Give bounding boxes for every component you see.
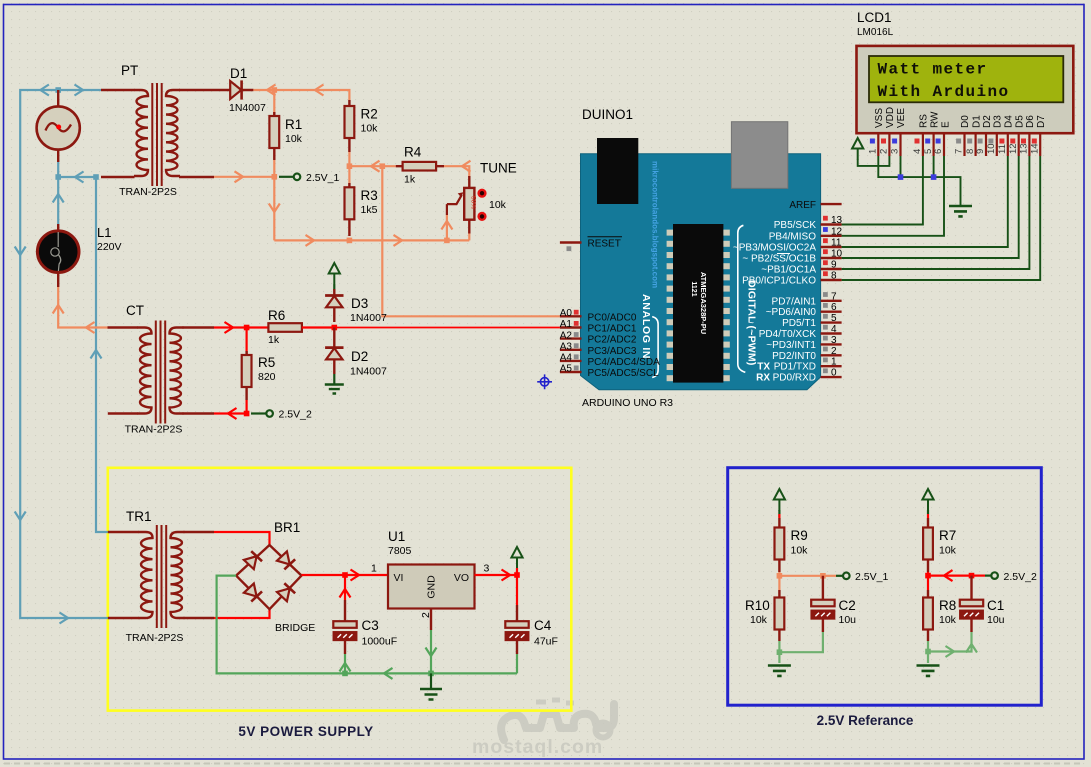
wire arrow green up C3 bbox=[340, 663, 351, 672]
svg-text:DUINO1: DUINO1 bbox=[582, 107, 633, 122]
wire maroon TR1 secondary leads bbox=[184, 532, 215, 618]
wire red A1 to arduino bbox=[334, 327, 560, 329]
junction R7 node bbox=[925, 573, 931, 579]
reset pin stub bbox=[560, 241, 582, 243]
wire green C4 to rail bbox=[516, 654, 518, 673]
wire orange R4 to TUNE bbox=[444, 166, 469, 177]
svg-text:Watt meter: Watt meter bbox=[878, 61, 988, 79]
arduino usb connector bbox=[731, 122, 787, 189]
svg-text:14: 14 bbox=[1029, 143, 1040, 154]
svg-text:10u: 10u bbox=[839, 614, 857, 626]
svg-text:D7: D7 bbox=[1036, 115, 1047, 128]
wire green D6 to pin9 bbox=[842, 156, 1030, 269]
svg-text:C4: C4 bbox=[534, 618, 552, 633]
svg-text:~ PB2/SS/OC1B: ~ PB2/SS/OC1B bbox=[742, 254, 816, 265]
power arrow LCD VDD bbox=[852, 138, 863, 160]
square p3 blue bbox=[892, 139, 897, 144]
junction bottom row R3 bbox=[347, 238, 353, 244]
wire arrow orange at R2 bbox=[315, 85, 324, 96]
wire blue mid rail bbox=[58, 160, 108, 532]
wire arrow green down gnd bbox=[426, 648, 437, 657]
svg-text:A1: A1 bbox=[560, 319, 573, 330]
svg-text:4: 4 bbox=[831, 324, 837, 335]
svg-text:D1: D1 bbox=[230, 66, 247, 81]
svg-text:PT: PT bbox=[121, 63, 138, 78]
reset gray square bbox=[567, 246, 572, 251]
junction C3 top bbox=[342, 572, 348, 578]
svg-text:0: 0 bbox=[831, 368, 837, 379]
svg-text:13: 13 bbox=[1019, 143, 1030, 154]
capacitor C1 bbox=[960, 576, 983, 632]
svg-text:10k: 10k bbox=[939, 614, 957, 626]
resistor R10 bbox=[775, 590, 785, 641]
red tick R9 bbox=[778, 514, 780, 518]
wire red R7 node bbox=[928, 572, 972, 590]
svg-text:7: 7 bbox=[831, 291, 837, 302]
red tick R7 bbox=[927, 514, 929, 518]
junction R2 bottom bbox=[347, 163, 353, 169]
svg-text:BR1: BR1 bbox=[274, 520, 300, 535]
capacitor C4 bbox=[505, 605, 528, 654]
junction R6-R5 bbox=[244, 325, 250, 331]
svg-text:VO: VO bbox=[454, 572, 469, 584]
svg-text:TX: TX bbox=[757, 362, 770, 373]
square p1 blue bbox=[870, 139, 875, 144]
wire green U1 gnd to rail bbox=[345, 630, 517, 673]
chip U ATMEGA328P-PU bbox=[673, 224, 723, 383]
wire orange R2 bottom to R4 row bbox=[349, 152, 395, 166]
square 3 gray bbox=[823, 336, 828, 341]
svg-text:R10: R10 bbox=[745, 598, 770, 613]
transformer TR1 bbox=[139, 525, 185, 628]
svg-text:47uF: 47uF bbox=[534, 636, 558, 648]
svg-text:TRAN-2P2S: TRAN-2P2S bbox=[126, 632, 184, 644]
junction green C3 bbox=[342, 671, 348, 677]
svg-text:D2: D2 bbox=[982, 115, 993, 128]
svg-text:9: 9 bbox=[831, 260, 837, 271]
svg-text:mikrocontrolandos.blogspot.com: mikrocontrolandos.blogspot.com bbox=[651, 161, 660, 288]
svg-text:5: 5 bbox=[831, 313, 837, 324]
wire green D2 to ground bbox=[333, 374, 335, 384]
junction top at AC source bbox=[55, 87, 61, 93]
svg-text:1: 1 bbox=[371, 563, 377, 575]
labels PB5-PB0 bbox=[733, 220, 816, 287]
bridge diode top-left bbox=[243, 551, 262, 569]
svg-text:1121: 1121 bbox=[690, 281, 697, 296]
svg-text:3: 3 bbox=[890, 149, 901, 154]
wire arrow blue down rail 2 bbox=[15, 512, 26, 521]
svg-text:R8: R8 bbox=[939, 598, 956, 613]
wire arrow blue top-left bbox=[40, 85, 49, 96]
junction C1 top bbox=[969, 573, 975, 579]
junction D3-D2 on A1 wire bbox=[332, 325, 338, 331]
svg-text:~PB3/MOSI/OC2A: ~PB3/MOSI/OC2A bbox=[733, 243, 816, 254]
bottom edge tick strip bbox=[4, 763, 1084, 765]
junction RW blue bbox=[931, 174, 937, 180]
svg-text:4: 4 bbox=[912, 149, 923, 154]
A5 square gray bbox=[574, 366, 579, 371]
transformer PT bbox=[134, 83, 180, 186]
power arrow ref left bbox=[774, 489, 785, 511]
diode D1 bbox=[222, 80, 253, 99]
wire orange lamp to CT bbox=[58, 287, 107, 328]
wire orange to node circle bbox=[823, 575, 836, 577]
transformer CT bbox=[138, 321, 184, 424]
svg-text:PD5/T1: PD5/T1 bbox=[782, 318, 816, 329]
svg-text:~PD3/INT1: ~PD3/INT1 bbox=[766, 340, 816, 351]
node 2.5V_1 ref circle bbox=[843, 573, 850, 580]
junction green gnd bbox=[428, 671, 434, 677]
wire arrow blue up mid rail bbox=[91, 350, 102, 359]
node 2.5V_2 ref wire bbox=[985, 574, 991, 576]
svg-text:10k: 10k bbox=[489, 199, 507, 211]
wire orange R1 top lead bbox=[273, 90, 275, 116]
A4 square gray bbox=[574, 354, 579, 359]
wire green D5 to pin10 bbox=[842, 156, 1019, 258]
digital pin stubs 7-0 bbox=[821, 301, 842, 377]
bridge diode bottom-right bbox=[277, 583, 296, 601]
svg-text:C2: C2 bbox=[839, 598, 856, 613]
svg-text:R5: R5 bbox=[258, 355, 275, 370]
node 2.5V_2 wire bbox=[251, 412, 266, 414]
A3 square gray bbox=[574, 343, 579, 348]
square 13 red bbox=[823, 216, 828, 221]
wire green C2 to R10 bbox=[779, 632, 823, 663]
svg-text:D6: D6 bbox=[1025, 115, 1036, 128]
svg-text:5: 5 bbox=[923, 149, 934, 154]
svg-text:TUNE: TUNE bbox=[480, 161, 517, 176]
wire arrow red into node bbox=[944, 570, 953, 581]
junction D1-R1 bbox=[272, 87, 278, 93]
pot TUNE terminal dot top bbox=[479, 190, 486, 197]
square 4 gray bbox=[823, 325, 828, 330]
svg-text:2.5V_2: 2.5V_2 bbox=[279, 409, 312, 421]
junction green R8 bbox=[925, 649, 931, 655]
square p12 red bbox=[1010, 139, 1015, 144]
svg-text:50%: 50% bbox=[470, 196, 477, 209]
resistor R4 bbox=[396, 162, 444, 171]
svg-text:RX: RX bbox=[756, 373, 770, 384]
wire arrow red VO bbox=[502, 570, 511, 581]
square p4 red bbox=[915, 139, 920, 144]
wire red R5 bottom to 2.5V_2 row bbox=[214, 400, 247, 414]
svg-text:mostaql.com: mostaql.com bbox=[472, 736, 603, 758]
svg-text:D4: D4 bbox=[1004, 115, 1015, 128]
svg-text:1N4007: 1N4007 bbox=[350, 366, 387, 378]
junction bottom row wiper bbox=[444, 238, 450, 244]
svg-text:VDD: VDD bbox=[885, 107, 896, 128]
ground 5V supply bbox=[420, 673, 442, 699]
wire arrow orange left to lamp col bbox=[86, 322, 95, 333]
potentiometer TUNE body bbox=[464, 176, 476, 234]
diode D2 bbox=[325, 348, 343, 374]
junction mid rail bbox=[93, 174, 99, 180]
wire arrow green rail left bbox=[384, 668, 393, 679]
regulator U1 7805 bbox=[388, 565, 475, 609]
svg-text:13: 13 bbox=[831, 215, 843, 226]
node 2.5V_2 ref circle bbox=[991, 572, 998, 579]
svg-text:7: 7 bbox=[954, 149, 965, 154]
svg-text:A4: A4 bbox=[560, 353, 573, 364]
svg-text:LM016L: LM016L bbox=[857, 27, 894, 38]
square p11 red bbox=[999, 139, 1004, 144]
svg-text:With Arduino: With Arduino bbox=[878, 83, 1010, 101]
square 5 gray bbox=[823, 314, 828, 319]
resistor R9 bbox=[775, 518, 785, 572]
wire arrow orange into R2 node bbox=[371, 161, 380, 172]
wire red TR1 bottom to bridge bbox=[214, 609, 270, 618]
5V power supply yellow box bbox=[108, 468, 572, 711]
ground LCD bbox=[949, 206, 972, 216]
svg-text:U1: U1 bbox=[388, 529, 405, 544]
junction C4 top bbox=[514, 572, 520, 578]
wire maroon PT secondary top to D1 bbox=[179, 89, 222, 91]
square p13 red bbox=[1021, 139, 1026, 144]
svg-text:12: 12 bbox=[831, 226, 843, 237]
svg-text:11: 11 bbox=[831, 238, 842, 249]
wire red power stem bbox=[516, 568, 518, 605]
pot TUNE wiper arrow bbox=[447, 192, 463, 215]
wire R9 top lead bbox=[778, 510, 780, 518]
bridge diode top-right bbox=[277, 551, 296, 569]
wire arrow blue down rail 1 bbox=[15, 247, 26, 256]
resistor R2 bbox=[345, 100, 355, 152]
wire orange R3 branch bbox=[348, 166, 350, 187]
junction AC bottom bbox=[55, 174, 61, 180]
node 2.5V_1 circle bbox=[294, 174, 301, 181]
svg-text:CT: CT bbox=[126, 303, 144, 318]
svg-text:PB0/ICP1/CLKO: PB0/ICP1/CLKO bbox=[742, 276, 816, 287]
junction 2.5V_1 tap bbox=[272, 174, 278, 180]
wire arrow orange into R4 bbox=[462, 161, 471, 172]
LCD1 screen bbox=[869, 56, 1063, 102]
wire maroon D2 top lead bbox=[333, 328, 335, 348]
wire R7 top lead bbox=[927, 510, 929, 514]
node 2.5V_1 ref wire bbox=[836, 575, 843, 577]
capacitor C3 bbox=[333, 600, 356, 654]
bridge BR1 diamond bbox=[236, 545, 301, 609]
svg-text:D0: D0 bbox=[960, 115, 971, 128]
power arrow above D3 bbox=[329, 263, 340, 285]
A1 square red bbox=[574, 321, 579, 326]
square p7 gray bbox=[956, 139, 961, 144]
wire maroon PT primary leads bbox=[101, 90, 135, 177]
node 2.5V_2 circle bbox=[266, 410, 273, 417]
svg-text:2.5V_2: 2.5V_2 bbox=[1004, 571, 1037, 583]
AREF stub bbox=[821, 203, 842, 205]
wire red to node circle bbox=[972, 574, 986, 576]
svg-text:TRAN-2P2S: TRAN-2P2S bbox=[119, 186, 177, 198]
analog pin stubs A0-A5 bbox=[560, 316, 582, 372]
svg-text:C1: C1 bbox=[987, 598, 1004, 613]
square 11 red bbox=[823, 238, 828, 243]
svg-text:TRAN-2P2S: TRAN-2P2S bbox=[125, 424, 183, 436]
svg-text:VEE: VEE bbox=[896, 108, 907, 128]
wire arrow orange to R1 node bbox=[235, 171, 244, 182]
wire arrow orange into D1 bbox=[267, 85, 276, 96]
junction R4 row branch bbox=[380, 163, 386, 169]
resistor R7 bbox=[923, 518, 933, 572]
svg-text:~PD6/AIN0: ~PD6/AIN0 bbox=[766, 307, 817, 318]
svg-text:2.5V_1: 2.5V_1 bbox=[306, 172, 339, 184]
svg-text:PD1/TXD: PD1/TXD bbox=[774, 362, 816, 373]
junction green R10 bbox=[777, 649, 783, 655]
svg-text:R2: R2 bbox=[361, 107, 378, 122]
square p6 blue bbox=[936, 139, 941, 144]
svg-text:PB4/MISO: PB4/MISO bbox=[769, 231, 816, 242]
AC source V1 bbox=[37, 90, 80, 162]
svg-text:220V: 220V bbox=[97, 241, 122, 253]
svg-text:VI: VI bbox=[394, 572, 404, 584]
wire orange long branch to A0 bbox=[382, 166, 560, 316]
resistor R3 bbox=[345, 183, 355, 236]
svg-text:PC3/ADC3: PC3/ADC3 bbox=[588, 346, 637, 357]
square p2 red bbox=[881, 139, 886, 144]
node 2.5V_1 wire bbox=[279, 176, 294, 178]
square p8 gray bbox=[967, 139, 972, 144]
svg-text:PC1/ADC1: PC1/ADC1 bbox=[588, 324, 637, 335]
svg-text:PD0/RXD: PD0/RXD bbox=[773, 373, 816, 384]
svg-text:10k: 10k bbox=[791, 545, 809, 557]
pot TUNE terminal dot bottom bbox=[479, 213, 486, 220]
svg-text:7805: 7805 bbox=[388, 545, 412, 557]
svg-text:D3: D3 bbox=[351, 296, 368, 311]
junction VEE blue bbox=[898, 174, 904, 180]
svg-text:2: 2 bbox=[831, 346, 837, 357]
wire arrow red up C3 bbox=[340, 589, 351, 598]
arduino board DUINO1 bbox=[581, 154, 821, 390]
lamp L1 bbox=[37, 224, 79, 287]
svg-text:6: 6 bbox=[933, 149, 944, 154]
svg-text:12: 12 bbox=[1008, 143, 1019, 154]
svg-text:ARDUINO UNO R3: ARDUINO UNO R3 bbox=[582, 397, 673, 409]
svg-text:E: E bbox=[941, 121, 952, 128]
svg-text:R4: R4 bbox=[404, 145, 422, 160]
square p10 gray bbox=[988, 139, 993, 144]
junction C2 top bbox=[820, 573, 826, 579]
wire blue top rail bbox=[20, 90, 108, 618]
svg-text:PC2/ADC2: PC2/ADC2 bbox=[588, 335, 637, 346]
wire maroon TR1 primary leads bbox=[108, 532, 139, 618]
svg-text:RESET: RESET bbox=[588, 239, 621, 250]
wire arrow orange bottom row 1 bbox=[306, 235, 315, 246]
arduino power jack bbox=[597, 138, 638, 204]
square 2 gray bbox=[823, 347, 828, 352]
LCD1 body bbox=[857, 46, 1074, 133]
ground ref left bbox=[768, 666, 791, 676]
wire red C3 branch bbox=[344, 575, 346, 600]
resistor R5 bbox=[242, 351, 252, 400]
wire green D4 to pin11 bbox=[842, 156, 1008, 247]
svg-text:GND: GND bbox=[426, 575, 438, 599]
svg-text:A0: A0 bbox=[560, 308, 573, 319]
svg-text:A5: A5 bbox=[560, 364, 573, 375]
wire orange PT sec bottom to R1 node bbox=[214, 160, 274, 240]
wire arrow blue into junction bbox=[75, 172, 84, 183]
digital bracket bbox=[738, 225, 746, 372]
square 12 blue bbox=[823, 227, 828, 232]
watermark mostaql bbox=[472, 700, 614, 758]
wire arrow orange up to lamp bbox=[53, 305, 64, 314]
ground ref right bbox=[917, 666, 940, 676]
svg-text:2.5V Referance: 2.5V Referance bbox=[817, 713, 914, 728]
wire green VDD to power bbox=[858, 156, 890, 166]
wire green D3 to power bbox=[333, 285, 335, 291]
svg-text:10u: 10u bbox=[987, 614, 1005, 626]
square 0 gray bbox=[823, 368, 828, 373]
svg-text:D5: D5 bbox=[1014, 115, 1025, 128]
wire arrow blue to TR1 bbox=[60, 613, 69, 624]
square 9 red bbox=[823, 260, 828, 265]
svg-text:11: 11 bbox=[997, 144, 1008, 154]
labels PC0-PC5 bbox=[588, 312, 661, 379]
wire arrow red to CT bbox=[228, 408, 237, 419]
square 7 gray bbox=[823, 292, 828, 297]
svg-text:AREF: AREF bbox=[789, 200, 816, 211]
wire arrow green right C1 bbox=[946, 646, 955, 657]
svg-text:1k: 1k bbox=[268, 334, 280, 346]
wire orange wiper down bbox=[446, 215, 448, 240]
analog bracket bbox=[652, 317, 658, 378]
power arrow 5V bbox=[511, 547, 522, 569]
svg-text:10k: 10k bbox=[939, 545, 957, 557]
svg-text:R6: R6 bbox=[268, 308, 285, 323]
wire arrow red into U1 bbox=[351, 570, 360, 581]
svg-text:D3: D3 bbox=[993, 115, 1004, 128]
svg-text:R7: R7 bbox=[939, 528, 956, 543]
wire orange R9 node bbox=[779, 572, 823, 590]
svg-text:PD2/INT0: PD2/INT0 bbox=[772, 351, 816, 362]
svg-text:10: 10 bbox=[831, 249, 843, 260]
svg-text:9: 9 bbox=[975, 149, 986, 154]
resistor R8 bbox=[923, 590, 933, 641]
svg-text:3: 3 bbox=[484, 563, 490, 575]
svg-text:820: 820 bbox=[258, 371, 276, 383]
svg-text:RW: RW bbox=[930, 111, 941, 128]
svg-text:A3: A3 bbox=[560, 342, 573, 353]
svg-text:R3: R3 bbox=[361, 188, 378, 203]
wire green RS to pin13 bbox=[842, 156, 923, 225]
resistor R1 bbox=[269, 112, 279, 160]
wire maroon U1 gnd lead bbox=[430, 609, 432, 630]
svg-text:A2: A2 bbox=[560, 330, 573, 341]
svg-text:10k: 10k bbox=[285, 133, 303, 145]
svg-text:ATMEGA328P-PU: ATMEGA328P-PU bbox=[699, 272, 708, 334]
svg-text:RS: RS bbox=[919, 114, 930, 128]
svg-text:2.5V_1: 2.5V_1 bbox=[855, 571, 888, 583]
svg-text:ANALOG IN: ANALOG IN bbox=[640, 294, 652, 359]
svg-text:PC4/ADC4/SDA: PC4/ADC4/SDA bbox=[588, 357, 661, 368]
square 1 gray bbox=[823, 358, 828, 363]
wire orange D1 to R2 top bbox=[253, 90, 349, 100]
wire green VSS VEE RW to ground bbox=[878, 156, 960, 205]
svg-text:1N4007: 1N4007 bbox=[350, 312, 387, 324]
junction 2.5V_2 bbox=[244, 411, 250, 417]
svg-text:8: 8 bbox=[831, 271, 837, 282]
wire arrow red to R6 bbox=[225, 322, 234, 333]
A2 square gray bbox=[574, 332, 579, 337]
wire arrow green up C1 bbox=[966, 644, 977, 653]
svg-text:C3: C3 bbox=[362, 618, 379, 633]
labels PD7-PD0 bbox=[759, 296, 817, 383]
svg-text:L1: L1 bbox=[97, 225, 111, 240]
svg-text:PB5/SCK: PB5/SCK bbox=[774, 220, 817, 231]
wire red R6 to D3 junction bbox=[302, 326, 334, 328]
wire orange bottom row bbox=[274, 234, 469, 241]
svg-text:PD7/AIN1: PD7/AIN1 bbox=[772, 296, 817, 307]
label RESET bbox=[588, 237, 623, 250]
ground below D2 bbox=[325, 385, 344, 394]
